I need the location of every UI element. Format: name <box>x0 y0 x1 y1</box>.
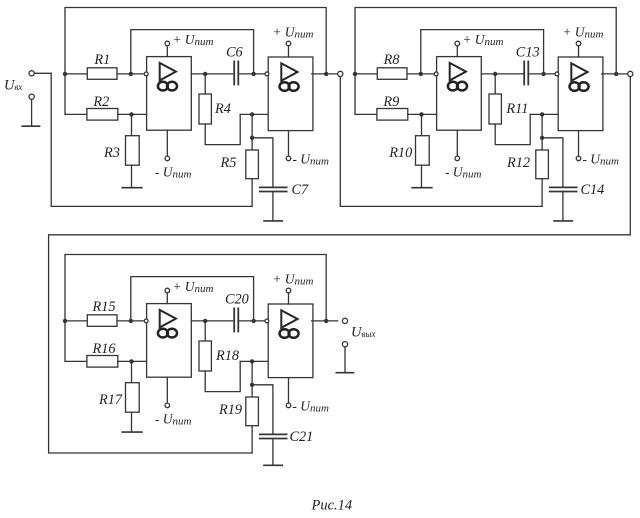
resistor R2 <box>87 94 118 120</box>
wire <box>191 320 234 322</box>
wire <box>312 320 338 322</box>
wire <box>65 74 87 115</box>
wire <box>49 77 631 453</box>
ground <box>264 464 282 466</box>
wire <box>238 320 265 322</box>
svg-text:R4: R4 <box>214 101 231 117</box>
wire <box>408 113 437 115</box>
op-amp B <box>268 57 313 131</box>
node <box>419 112 423 116</box>
svg-text:R8: R8 <box>383 52 400 68</box>
svg-text:R9: R9 <box>382 94 399 110</box>
capacitor C7 <box>252 138 309 221</box>
svg-text:R19: R19 <box>218 402 242 418</box>
svg-text:R17: R17 <box>98 392 123 408</box>
ground <box>412 187 432 189</box>
+U power pin <box>286 288 291 304</box>
svg-text:R10: R10 <box>388 145 412 161</box>
svg-text:- Uпит: - Uпит <box>445 164 481 180</box>
wire <box>240 113 268 115</box>
node <box>251 72 255 76</box>
wire <box>530 113 558 115</box>
resistor R18 <box>199 321 240 392</box>
resistor R10 <box>388 114 429 187</box>
wire <box>117 73 145 75</box>
node <box>353 72 357 76</box>
resistor R19 <box>218 361 258 453</box>
wire <box>355 8 616 74</box>
wire <box>238 73 265 75</box>
capacitor C13 <box>516 44 540 84</box>
svg-text:R16: R16 <box>92 341 117 357</box>
capacitor C21 <box>252 385 313 466</box>
wire <box>355 74 377 115</box>
resistor R16 <box>87 341 118 367</box>
svg-text:+ Uпит: + Uпит <box>173 279 214 295</box>
node <box>614 72 618 76</box>
wire <box>118 360 147 362</box>
-U power pin <box>455 130 460 161</box>
-U power pin <box>286 378 291 408</box>
ground <box>122 431 142 433</box>
node <box>541 72 545 76</box>
node <box>203 72 207 76</box>
node <box>250 383 254 387</box>
wire <box>117 320 145 322</box>
node <box>493 72 497 76</box>
svg-text:Uвых: Uвых <box>351 324 375 340</box>
svg-text:+ Uпит: + Uпит <box>173 32 214 48</box>
resistor R17 <box>98 361 139 432</box>
ground <box>554 220 572 222</box>
inverting input <box>555 72 559 76</box>
svg-text:C13: C13 <box>516 44 540 60</box>
svg-text:- Uпит: - Uпит <box>155 164 191 180</box>
node <box>250 359 254 363</box>
node <box>129 112 133 116</box>
node <box>250 136 254 140</box>
+U power pin <box>455 41 460 56</box>
op-amp A <box>437 57 482 131</box>
wire <box>191 73 234 75</box>
-U power pin <box>576 131 581 161</box>
inverting input <box>265 72 269 76</box>
wire <box>602 73 628 75</box>
node <box>251 319 255 323</box>
resistor R15 <box>87 299 117 326</box>
-U power pin <box>286 131 291 161</box>
svg-text:C21: C21 <box>290 429 314 445</box>
node <box>324 72 328 76</box>
node <box>63 319 67 323</box>
resistor R1 <box>87 52 117 79</box>
resistor R8 <box>377 52 407 79</box>
svg-text:R11: R11 <box>505 101 528 117</box>
node <box>540 136 544 140</box>
svg-text:C6: C6 <box>226 44 244 60</box>
node <box>129 319 133 323</box>
output ground terminal <box>342 342 347 373</box>
svg-text:Uвх: Uвх <box>4 77 22 93</box>
wire <box>407 73 435 75</box>
wire <box>421 30 544 74</box>
+U power pin <box>165 41 170 56</box>
-U power pin <box>165 130 170 161</box>
wire <box>312 73 338 75</box>
capacitor C20 <box>225 291 249 331</box>
wire <box>65 255 326 321</box>
output terminal <box>628 71 633 76</box>
input terminal Uvx <box>29 71 51 76</box>
resistor R4 <box>199 74 240 145</box>
svg-text:- Uпит: - Uпит <box>155 411 191 427</box>
wire <box>51 73 252 206</box>
node <box>129 359 133 363</box>
wire <box>65 320 87 322</box>
wire <box>65 321 87 362</box>
node <box>203 319 207 323</box>
svg-text:+ Uпит: + Uпит <box>273 25 314 41</box>
input ground terminal <box>29 94 34 126</box>
wire <box>65 8 326 74</box>
svg-text:+ Uпит: + Uпит <box>563 25 604 41</box>
node <box>129 72 133 76</box>
node <box>419 72 423 76</box>
svg-text:Рис.14: Рис.14 <box>311 497 353 513</box>
svg-text:R15: R15 <box>92 299 116 315</box>
svg-text:- Uпит: - Uпит <box>583 151 619 167</box>
inverting input <box>144 72 148 76</box>
resistor R11 <box>489 74 530 145</box>
svg-text:C20: C20 <box>225 291 249 307</box>
resistor R3 <box>103 114 139 187</box>
wire <box>131 30 254 74</box>
wire <box>528 73 555 75</box>
svg-text:R1: R1 <box>93 52 110 68</box>
-U power pin <box>165 377 170 408</box>
node <box>540 112 544 116</box>
wire <box>355 73 377 75</box>
wire <box>65 73 87 75</box>
svg-text:- Uпит: - Uпит <box>293 151 329 167</box>
capacitor C6 <box>226 44 244 84</box>
svg-text:R3: R3 <box>103 145 120 161</box>
inverting input <box>144 319 148 323</box>
resistor R9 <box>377 94 408 120</box>
op-amp B <box>268 304 313 378</box>
node <box>63 72 67 76</box>
svg-text:R18: R18 <box>215 348 239 364</box>
+U power pin <box>165 288 170 303</box>
svg-text:R2: R2 <box>92 94 109 110</box>
capacitor C14 <box>542 138 604 221</box>
wire <box>340 77 542 207</box>
resistor R12 <box>506 114 548 206</box>
op-amp B <box>558 57 603 131</box>
wire <box>118 113 147 115</box>
svg-text:+ Uпит: + Uпит <box>463 32 504 48</box>
op-amp A <box>147 304 192 378</box>
svg-text:R12: R12 <box>506 155 530 171</box>
+U power pin <box>576 41 581 57</box>
wire <box>131 277 254 321</box>
svg-text:R5: R5 <box>220 155 237 171</box>
+U power pin <box>286 41 291 57</box>
wire <box>481 73 524 75</box>
node <box>250 112 254 116</box>
svg-text:C7: C7 <box>292 182 310 198</box>
resistor R5 <box>220 114 259 206</box>
output terminal <box>342 318 347 323</box>
node <box>324 319 328 323</box>
op-amp A <box>147 57 192 131</box>
ground <box>264 220 282 222</box>
inverting input <box>434 72 438 76</box>
inverting input <box>265 319 269 323</box>
svg-text:C14: C14 <box>581 182 605 198</box>
ground <box>336 372 353 374</box>
svg-text:+ Uпит: + Uпит <box>273 272 314 288</box>
ground <box>122 187 142 189</box>
output terminal <box>338 71 343 76</box>
ground <box>22 125 39 127</box>
wire <box>240 360 268 362</box>
svg-text:- Uпит: - Uпит <box>293 398 329 414</box>
